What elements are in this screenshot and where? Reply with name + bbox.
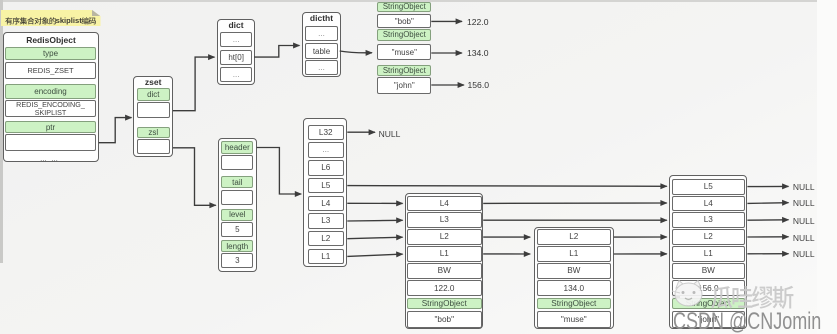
- wire: zskiplist.header to level column: [257, 148, 302, 195]
- wire: node2.L1 to node3.L1: [614, 253, 667, 255]
- wire: node1.L1 to node2.L1: [483, 253, 530, 255]
- header ptr cell (empty): [221, 155, 253, 170]
- node3 cell L1: [672, 246, 745, 262]
- node2 cell muse: [537, 311, 611, 329]
- wire: muse to score 134.0: [431, 52, 462, 54]
- node1 cell L4: [407, 196, 482, 212]
- NULL label for node3 L1: [793, 249, 827, 259]
- header label cell: [221, 141, 253, 154]
- NULL label for node3 L5: [793, 182, 827, 192]
- level column cell L4: [308, 196, 344, 212]
- node3 cell L4: [672, 196, 745, 212]
- NULL label for node3 L2: [793, 233, 827, 243]
- wire: node3.L3 to NULL: [747, 219, 788, 221]
- wire: node3.L5 to NULL: [747, 185, 788, 187]
- RedisObject box: [3, 32, 99, 162]
- length label cell: [221, 240, 253, 252]
- node2 box (muse): [534, 227, 614, 329]
- NULL label for node3 L3: [793, 216, 827, 226]
- dictht dots bottom cell: [305, 60, 338, 75]
- header level column box: [303, 118, 347, 267]
- node1 cell 122.0: [407, 280, 482, 296]
- level column cell L1: [308, 249, 344, 265]
- node2 cell 134.0: [537, 280, 611, 296]
- watermark text CSDN @CNJomin: [673, 308, 821, 334]
- watermark text 瓜哇缪斯: [711, 286, 732, 309]
- ptr cell: [5, 121, 96, 133]
- wire: level column L32 to NULL: [347, 131, 375, 133]
- StringObject header 2: [377, 29, 431, 41]
- score 134.0: [467, 48, 507, 58]
- dict box: [217, 19, 256, 85]
- level value 5 cell: [221, 222, 253, 237]
- dict dots top cell: [220, 32, 252, 47]
- level label cell: [221, 209, 253, 221]
- wire: node3.L1 to NULL: [747, 253, 788, 255]
- node3 box (john): [669, 175, 747, 329]
- left edge strip: [0, 0, 3, 263]
- node3 cell john: [672, 311, 745, 329]
- level column cell L32: [308, 125, 344, 141]
- node1 cell StringObject: [407, 298, 482, 310]
- dictht title: [303, 13, 340, 24]
- zskiplist struct box: [218, 138, 257, 272]
- wire: node3.L2 to NULL: [747, 236, 788, 238]
- ptr value cell (empty): [5, 134, 96, 151]
- tail ptr cell (empty): [221, 190, 253, 206]
- wire: node3.L4 to NULL: [747, 202, 788, 205]
- node2 cell L1: [537, 246, 611, 262]
- score 122.0: [467, 17, 507, 27]
- REDIS_ZSET cell: [5, 62, 96, 79]
- REDIS_ENCODING_SKIPLIST cell: [5, 100, 96, 117]
- node1 box (bob): [405, 193, 483, 329]
- top edge line: [0, 0, 837, 2]
- wire: node1.L2 to node2.L2: [483, 236, 530, 238]
- node1 cell L3: [407, 212, 482, 228]
- node1 cell BW: [407, 263, 482, 279]
- watermark cat icon: [672, 281, 702, 307]
- wire: zset.dict to dict: [173, 57, 215, 111]
- node1 cell L1: [407, 246, 482, 262]
- dict title: [218, 20, 254, 31]
- node2 cell BW: [537, 263, 611, 279]
- level column cell L5: [308, 178, 344, 194]
- dots under ptr: [5, 154, 93, 163]
- wire: zset.zsl to zskiplist struct: [173, 148, 216, 206]
- length value 3 cell: [221, 253, 253, 268]
- muse value cell: [377, 44, 431, 60]
- node1 cell bob: [407, 311, 482, 329]
- level column cell L6: [308, 160, 344, 176]
- wire: level column L2 to node1.L2: [347, 237, 402, 239]
- wire: bob to score 122.0: [431, 20, 462, 22]
- node3 cell L3: [672, 212, 745, 228]
- zset zsl label cell: [137, 127, 170, 139]
- svg-text:skiplist: skiplist: [56, 16, 83, 25]
- encoding cell: [5, 84, 96, 99]
- yellow note fold corner: [92, 10, 101, 16]
- zset dict ptr cell (empty): [137, 102, 170, 118]
- node3 cell BW: [672, 263, 745, 279]
- wire: john to score 156.0: [431, 84, 464, 86]
- dictht dots top cell: [305, 26, 338, 41]
- tail label cell: [221, 176, 253, 188]
- node1 cell L2: [407, 229, 482, 245]
- node2 cell StringObject: [537, 298, 611, 310]
- dict dots bottom cell: [220, 67, 252, 83]
- level column cell L2: [308, 231, 344, 247]
- RedisObject title: [5, 34, 97, 47]
- zset box: [133, 76, 173, 158]
- zset title: [134, 77, 172, 88]
- dictht table cell: [305, 43, 338, 59]
- yellow note: sticky label: [1, 10, 101, 26]
- wire: RedisObject.ptr to zset: [99, 118, 132, 143]
- StringObject header 3: [377, 65, 431, 76]
- StringObject header 1: [377, 2, 431, 12]
- node3 cell L5: [672, 179, 745, 195]
- yellow note text: 有序集合对象的skiplist编码: [0, 0, 120, 30]
- NULL label for node3 L4: [793, 198, 827, 208]
- wire: dictht.table to StringObject muse: [340, 51, 372, 53]
- node3 cell StringObject: [672, 298, 745, 310]
- wire: node1.L4 to node3.L4: [483, 202, 667, 204]
- NULL label for L32: [379, 129, 413, 139]
- wire: level column L4 to node1.L4: [347, 202, 402, 204]
- right light strip: [817, 0, 837, 334]
- zset dict label cell: [137, 88, 170, 101]
- bob value cell: [377, 14, 431, 28]
- level column cell L3: [308, 213, 344, 229]
- wire: node1.L3 to node3.L3: [483, 219, 667, 221]
- wire: level column L3 to node1.L3: [347, 219, 402, 222]
- wire: dict.ht[0] to dictht: [254, 46, 299, 58]
- score 156.0: [468, 80, 508, 90]
- node3 cell L2: [672, 229, 745, 245]
- type cell: [5, 47, 96, 61]
- wire: node2.L2 to node3.L2: [614, 236, 667, 238]
- dict ht[0] cell: [220, 50, 252, 65]
- wire: level column L1 to node1.L1: [347, 254, 402, 256]
- wire: level column L5 to node3.L5: [347, 185, 667, 188]
- john value cell: [377, 77, 431, 94]
- level column cell dots: [308, 142, 344, 158]
- node3 cell 156.0: [672, 280, 745, 296]
- zset zsl ptr cell (empty): [137, 139, 170, 154]
- node2 cell L2: [537, 229, 611, 245]
- dictht box: [302, 12, 342, 77]
